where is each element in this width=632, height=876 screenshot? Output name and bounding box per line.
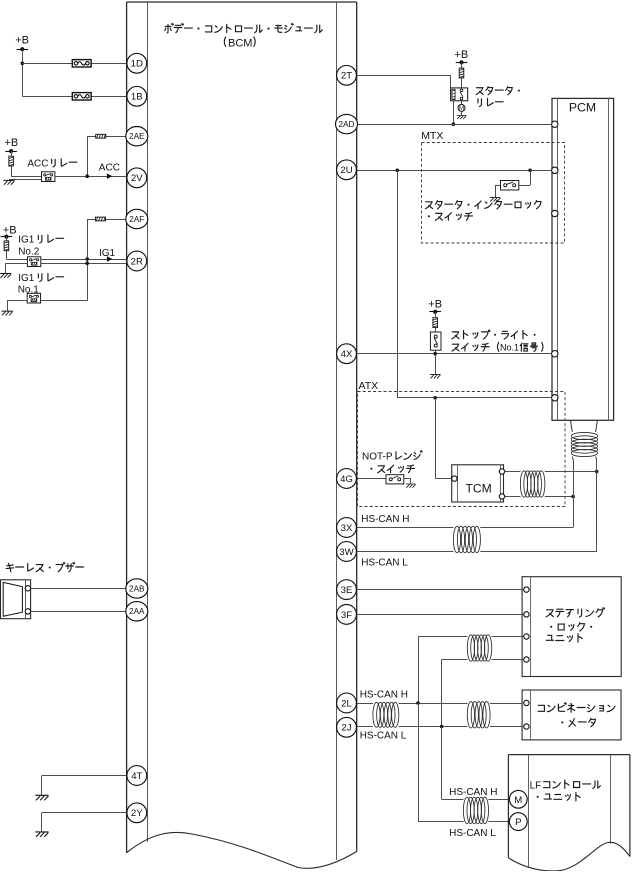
wire to 1D bbox=[22, 63, 127, 65]
label ・スイッチ (interlock) bbox=[428, 213, 473, 221]
+B terminal (IG1) bbox=[1, 235, 13, 239]
steering lock unit box bbox=[522, 577, 621, 677]
twisted pair (PCM vertical) bbox=[571, 432, 597, 456]
BCM terminal 4T bbox=[127, 766, 147, 786]
label HS-CAN L (3W) bbox=[361, 557, 408, 568]
ground (4T) bbox=[36, 795, 48, 800]
twisted pair (2L/2J right) bbox=[467, 702, 490, 728]
BCM terminal 2AE bbox=[126, 127, 148, 146]
fuse on 2AE wire bbox=[96, 134, 106, 138]
svg-text:HS-CAN H: HS-CAN H bbox=[360, 690, 408, 701]
wire twisted pair to P bbox=[488, 821, 509, 823]
keyless buzzer box bbox=[1, 580, 31, 619]
wire drop to M (HS-CAN H) bbox=[442, 727, 464, 800]
buzzer terminal upper bbox=[25, 586, 30, 591]
wire 2J HS-CAN L bbox=[357, 726, 524, 728]
wire +B into ACC relay bbox=[11, 176, 41, 178]
ground (2Y) bbox=[36, 832, 48, 837]
wire 3E to steering lock bbox=[357, 589, 524, 591]
wire ATX horizontal to PCM bbox=[397, 397, 551, 399]
wire relay No.1 to ground bbox=[7, 301, 27, 311]
starter interlock switch bbox=[501, 181, 519, 191]
BCM terminal 3F bbox=[337, 605, 357, 625]
LF control unit box bbox=[508, 755, 630, 871]
wire 3W HS-CAN L bbox=[357, 551, 597, 553]
svg-text:2U: 2U bbox=[340, 165, 352, 176]
label MTX bbox=[421, 130, 443, 142]
BCM terminal 2V bbox=[127, 168, 147, 188]
svg-text:+B: +B bbox=[15, 35, 29, 47]
label HS-CAN H (2L) bbox=[360, 690, 408, 701]
wire TCM lower to HS-CAN bbox=[505, 496, 573, 498]
svg-text:M: M bbox=[459, 106, 464, 112]
wire 2Y to ground bbox=[42, 813, 127, 832]
wire 3X HS-CAN H bbox=[357, 527, 573, 529]
label コンビネーション bbox=[538, 703, 615, 712]
wire motor to ground bbox=[461, 111, 463, 115]
IG1 relay No.2 bbox=[27, 257, 40, 267]
wire 3F to steering lock bbox=[357, 614, 524, 616]
wires below PCM twisted pair bbox=[572, 457, 596, 552]
label ・メータ bbox=[561, 718, 595, 726]
combination meter box bbox=[522, 690, 621, 740]
wire branch to 2AF bbox=[87, 219, 127, 301]
svg-text:2AD: 2AD bbox=[339, 120, 355, 129]
wire fuse to stop switch bbox=[435, 327, 437, 332]
wire 4X to PCM bbox=[357, 353, 552, 355]
junction dot 2J/steering bbox=[440, 725, 444, 729]
NOT-P range switch bbox=[386, 475, 404, 484]
PCM box bbox=[552, 98, 614, 420]
wire buzzer to 2AA bbox=[31, 611, 127, 613]
ATX dashed box bbox=[358, 392, 566, 507]
fuse on 2AF wire bbox=[95, 217, 105, 221]
wire drop to P (HS-CAN L) bbox=[418, 703, 464, 822]
label HS-CAN L (LF) bbox=[449, 828, 496, 839]
wire steering pair upper bbox=[418, 636, 524, 638]
svg-text:BCM: BCM bbox=[228, 37, 252, 49]
IG1 relay No.1 bbox=[27, 293, 40, 303]
ground (ACC relay) bbox=[4, 180, 15, 184]
PCM terminal (ATX wire) bbox=[552, 395, 558, 401]
TCM terminal right upper bbox=[499, 469, 504, 474]
label TCM bbox=[465, 482, 491, 496]
wire interlock to ground bbox=[495, 185, 501, 197]
twisted pair (TCM) bbox=[520, 471, 545, 497]
svg-text:1D: 1D bbox=[131, 59, 143, 70]
label スタータ・インターロック bbox=[425, 201, 541, 209]
wire branch to 2AE bbox=[87, 136, 127, 176]
+B terminal (ACC) bbox=[5, 149, 17, 153]
wire to 1B bbox=[22, 96, 127, 98]
steering lock terminal 3 bbox=[524, 634, 529, 639]
wire +B down to 1B branch bbox=[22, 49, 24, 96]
svg-text:HS-CAN H: HS-CAN H bbox=[449, 787, 497, 798]
wire 2AD to PCM bbox=[357, 124, 552, 126]
wire branch down to TCM bbox=[435, 398, 452, 479]
BCM terminal 2L bbox=[337, 693, 357, 713]
svg-text:TCM: TCM bbox=[465, 482, 491, 496]
steering lock terminal 2 bbox=[524, 612, 529, 617]
svg-text:1B: 1B bbox=[131, 92, 143, 103]
BCM terminal 3X bbox=[337, 518, 357, 538]
label IG1リレー No.1 bbox=[18, 273, 64, 296]
ground (IG1 relay No.2) bbox=[0, 274, 11, 278]
svg-text:IG1: IG1 bbox=[18, 235, 35, 246]
svg-text:4X: 4X bbox=[341, 349, 353, 360]
BCM terminal 4X bbox=[337, 344, 357, 364]
label ステアリング bbox=[546, 608, 604, 617]
BCM terminal 3W bbox=[337, 542, 357, 562]
label +B (IG1) bbox=[3, 225, 17, 237]
wire 4G to NOT-P switch bbox=[357, 478, 386, 480]
wire relay No.2 to 2R (lower) bbox=[41, 263, 127, 265]
TCM box bbox=[452, 465, 504, 502]
wire starter relay coil to 2AD wire bbox=[453, 101, 455, 124]
steering lock terminal 1 bbox=[524, 587, 529, 592]
svg-text:2J: 2J bbox=[341, 723, 351, 734]
svg-text:+B: +B bbox=[3, 225, 17, 237]
BCM terminal 2R bbox=[127, 251, 147, 271]
junction dot at 1D branch bbox=[21, 62, 25, 66]
BCM module box outline bbox=[127, 2, 357, 868]
svg-text:PCM: PCM bbox=[569, 101, 596, 115]
wire stop switch to 4X wire bbox=[435, 350, 437, 354]
wire +B to ACC relay bbox=[11, 151, 13, 176]
PCM terminal (4X wire) bbox=[552, 351, 558, 357]
svg-text:3X: 3X bbox=[341, 523, 353, 534]
BCM terminal 1B bbox=[127, 86, 147, 106]
buzzer terminal lower bbox=[25, 609, 30, 614]
wire starter relay to motor bbox=[461, 101, 463, 105]
wire +B to fuse (stop) bbox=[435, 312, 437, 319]
BCM terminal 3E bbox=[337, 580, 357, 600]
fuse on IG1 +B wire bbox=[4, 241, 9, 251]
svg-text:No.1: No.1 bbox=[500, 342, 519, 352]
wire relay No.1 right bbox=[41, 300, 88, 302]
wire steering upper drop bbox=[418, 637, 420, 704]
+B terminal (starter) bbox=[456, 60, 468, 64]
stop light switch bbox=[430, 332, 441, 350]
ground (starter motor) bbox=[457, 115, 466, 118]
twisted pair (steering) bbox=[467, 635, 491, 661]
wire 2T to starter relay bbox=[357, 75, 451, 88]
PCM connector boot bbox=[571, 420, 598, 432]
label ・ユニット (LF) bbox=[537, 793, 580, 801]
label IG1リレー No.2 bbox=[18, 235, 63, 258]
junction dot ACC/2AE bbox=[85, 174, 89, 178]
BCM terminal 2J bbox=[337, 717, 357, 737]
label ACCリレー bbox=[27, 159, 77, 170]
svg-text:2AE: 2AE bbox=[129, 132, 145, 141]
wire steering pair lower bbox=[442, 659, 524, 661]
junction dot CAN-L/TCM bbox=[595, 470, 599, 474]
label ユニット bbox=[546, 634, 582, 642]
fusible link on 1D wire bbox=[72, 60, 91, 67]
svg-text:2L: 2L bbox=[341, 698, 352, 709]
label ストップ・ライト・ bbox=[452, 330, 536, 339]
label ATX bbox=[359, 380, 379, 392]
ground (IG1 relay No.1) bbox=[2, 311, 13, 315]
svg-text:NOT-P: NOT-P bbox=[362, 451, 393, 462]
label LFコントロール bbox=[530, 780, 601, 791]
TCM terminal right lower bbox=[499, 494, 504, 499]
+B terminal (stop light) bbox=[429, 310, 441, 314]
label スタータ・リレー bbox=[476, 87, 520, 107]
BCM terminal 2AF bbox=[126, 209, 148, 228]
junction dot CAN-H/TCM bbox=[571, 495, 575, 499]
label +B (starter) bbox=[454, 49, 468, 61]
svg-text:HS-CAN L: HS-CAN L bbox=[449, 828, 496, 839]
steering lock terminal 4 bbox=[524, 657, 529, 662]
MTX dashed box bbox=[422, 143, 565, 244]
wire +B to fuse bbox=[461, 62, 463, 68]
ACC relay bbox=[42, 172, 55, 182]
fusible link on 1B wire bbox=[72, 93, 91, 100]
arrow IG1 bbox=[107, 256, 113, 261]
svg-text:P: P bbox=[515, 817, 521, 828]
label スイッチ（No.1信号） bbox=[452, 342, 543, 352]
wire 2U branch down to ATX bbox=[397, 170, 399, 397]
BCM terminal 2U bbox=[337, 160, 357, 180]
fuse (stop light) bbox=[433, 318, 438, 328]
combination meter terminal upper bbox=[524, 700, 529, 705]
arrow ACC bbox=[107, 174, 113, 179]
wire relay No.2 to 2R (upper) bbox=[41, 259, 127, 261]
junction dot on 2AD wire bbox=[452, 122, 456, 126]
ground (interlock switch) bbox=[490, 198, 500, 202]
svg-text:3W: 3W bbox=[339, 547, 354, 558]
svg-text:HS-CAN L: HS-CAN L bbox=[360, 731, 407, 742]
label キーレス・ブザー bbox=[6, 563, 84, 572]
wire +B into relay No.2 bbox=[6, 259, 27, 261]
svg-text:2T: 2T bbox=[341, 71, 352, 82]
svg-text:+B: +B bbox=[5, 137, 19, 149]
ground (stop light switch) bbox=[430, 374, 440, 378]
junction dot IG1 upper bbox=[85, 257, 89, 261]
svg-text:+B: +B bbox=[454, 49, 468, 61]
svg-text:HS-CAN H: HS-CAN H bbox=[361, 514, 409, 525]
label IG1 (output) bbox=[99, 248, 116, 259]
svg-text:2AA: 2AA bbox=[129, 607, 145, 616]
wire steering lower drop bbox=[441, 660, 443, 727]
starter relay bbox=[451, 88, 468, 101]
label ・スイッチ (NOT-P) bbox=[370, 465, 414, 473]
svg-text:LF: LF bbox=[530, 780, 542, 791]
svg-text:M: M bbox=[514, 795, 522, 806]
label HS-CAN L (2J) bbox=[360, 731, 407, 742]
BCM title (BCM) bbox=[224, 37, 255, 49]
svg-text:4G: 4G bbox=[340, 474, 353, 485]
fuse on ACC +B wire bbox=[9, 156, 14, 166]
twisted pair (2L/2J left) bbox=[373, 702, 399, 727]
PCM terminal (unused, MTX) bbox=[552, 210, 558, 216]
wire 4T to ground bbox=[42, 776, 127, 796]
BCM terminal 1D bbox=[127, 53, 147, 73]
wire stop switch to ground bbox=[435, 354, 437, 375]
svg-text:IG1: IG1 bbox=[18, 273, 35, 284]
svg-text:HS-CAN L: HS-CAN L bbox=[361, 557, 408, 568]
LF terminal M bbox=[509, 790, 527, 808]
svg-text:2R: 2R bbox=[131, 256, 143, 267]
combination meter terminal lower bbox=[524, 724, 529, 729]
wire ACC relay to 2V bbox=[55, 176, 127, 178]
svg-text:ATX: ATX bbox=[359, 380, 379, 392]
junction dot 2U/ATX branch bbox=[396, 169, 400, 173]
PCM terminal (2U wire) bbox=[552, 167, 558, 173]
label PCM bbox=[569, 101, 596, 115]
junction dot stop switch bbox=[433, 352, 437, 356]
svg-text:MTX: MTX bbox=[421, 130, 443, 142]
junction dot IG1 lower bbox=[85, 261, 89, 265]
svg-text:3E: 3E bbox=[341, 585, 353, 596]
wire NOT-P switch to ground bbox=[404, 479, 411, 484]
starter motor M bbox=[458, 104, 465, 112]
label ・ロック・ bbox=[550, 623, 592, 631]
BCM terminal 2T bbox=[337, 65, 357, 85]
label NOT-Pレンジ bbox=[362, 451, 422, 463]
LF terminal P bbox=[509, 813, 527, 831]
svg-text:ACC: ACC bbox=[27, 159, 48, 170]
label +B (ACC) bbox=[5, 137, 19, 149]
svg-text:2Y: 2Y bbox=[131, 808, 143, 819]
wire +B to IG1 relay No.2 bbox=[6, 237, 8, 259]
svg-text:2V: 2V bbox=[131, 173, 143, 184]
wire fuse to starter relay bbox=[461, 78, 463, 88]
junction dot ATX/TCM branch bbox=[433, 396, 437, 400]
TCM terminal left bbox=[452, 476, 457, 481]
wire interlock drop bbox=[519, 170, 531, 185]
+B terminal (top left) bbox=[17, 47, 29, 51]
PCM terminal (2AD wire) bbox=[552, 121, 558, 127]
svg-text:3F: 3F bbox=[341, 610, 352, 621]
BCM terminal 2Y bbox=[127, 803, 147, 823]
svg-text:+B: +B bbox=[428, 298, 442, 310]
BCM terminal 2AA bbox=[126, 602, 148, 621]
wire 2L HS-CAN H bbox=[357, 703, 524, 705]
svg-text:No.2: No.2 bbox=[18, 247, 40, 258]
svg-text:2AF: 2AF bbox=[129, 215, 144, 224]
label +B (top left) bbox=[15, 35, 29, 47]
junction dot 2U/interlock bbox=[528, 169, 532, 173]
BCM terminal 2AB bbox=[126, 579, 148, 598]
twisted pair (LF) bbox=[463, 797, 488, 823]
BCM title text ボデー・コントロール・モジュール bbox=[165, 24, 323, 33]
label +B (stop light) bbox=[428, 298, 442, 310]
wire 2U to PCM bbox=[357, 170, 552, 172]
BCM terminal 2AD bbox=[336, 114, 358, 133]
wire relay No.2 to ground bbox=[6, 263, 28, 273]
wire ACC relay to ground bbox=[9, 178, 42, 181]
label ACC (output) bbox=[99, 163, 120, 174]
wire buzzer to 2AB bbox=[31, 588, 127, 590]
wire TCM upper to HS-CAN bbox=[505, 471, 597, 473]
svg-text:4T: 4T bbox=[131, 771, 142, 782]
twisted pair (3X/3W) bbox=[453, 526, 480, 552]
junction dot 2L/steering bbox=[416, 701, 420, 705]
svg-text:2AB: 2AB bbox=[129, 584, 145, 593]
wire twisted pair to M bbox=[488, 799, 509, 801]
label HS-CAN H (LF) bbox=[449, 787, 497, 798]
BCM terminal 4G bbox=[337, 469, 357, 489]
svg-text:ACC: ACC bbox=[99, 163, 120, 174]
fuse (starter relay +B) bbox=[459, 68, 464, 78]
ground (NOT-P switch) bbox=[406, 484, 415, 488]
label HS-CAN H (3X) bbox=[361, 514, 409, 525]
